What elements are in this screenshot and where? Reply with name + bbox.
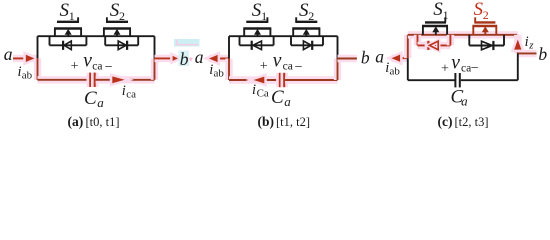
svg-text:C: C bbox=[271, 87, 284, 108]
transistor S2 (circuit c) bbox=[472, 17, 497, 35]
svg-text:b: b bbox=[361, 48, 370, 68]
svg-text:(a): (a) bbox=[68, 114, 84, 129]
svg-text:1: 1 bbox=[69, 9, 75, 23]
caption (b) [t1, t2] bbox=[258, 114, 311, 129]
svg-text:ca: ca bbox=[92, 60, 102, 72]
label + vca - (circuit a) bbox=[71, 50, 113, 75]
wire: bottom rail left of capacitor (circuit c) bbox=[408, 79, 455, 81]
wire: left vertical lower, red path (circuit b) bbox=[225, 59, 232, 81]
wire to node b (circuit c) bbox=[518, 50, 537, 57]
wire: right vertical with current i_z (circuit c) bbox=[514, 35, 521, 54]
caption (a) [t0, t1] bbox=[68, 114, 120, 129]
label Ca (circuit c) bbox=[451, 87, 469, 109]
current arrow i_ab into node a (circuit a) bbox=[13, 55, 38, 62]
caption (c) [t2, t3] bbox=[438, 114, 489, 129]
transistor S2 (circuit b) bbox=[292, 17, 320, 36]
svg-text:1: 1 bbox=[443, 8, 449, 22]
wire: bottom rail right of capacitor (circuit c) bbox=[461, 79, 518, 81]
svg-text:a: a bbox=[195, 47, 204, 67]
transistor S1 (circuit b) bbox=[243, 17, 271, 36]
body diode of S2 (circuit c) bbox=[469, 35, 504, 50]
current arrow i_Ca on rail (circuit b) bbox=[254, 77, 265, 84]
wire: bottom rail right of capacitor (circuit a) bbox=[96, 76, 155, 83]
svg-text:1: 1 bbox=[261, 9, 267, 23]
svg-text:C: C bbox=[84, 88, 97, 109]
svg-text:ca: ca bbox=[283, 60, 293, 72]
svg-text:(b): (b) bbox=[258, 114, 275, 129]
svg-text:a: a bbox=[97, 95, 104, 110]
label i_ab (circuit a) bbox=[18, 64, 33, 82]
svg-text:−: − bbox=[105, 60, 113, 75]
svg-text:[t2, t3]: [t2, t3] bbox=[455, 115, 489, 129]
svg-text:b: b bbox=[180, 49, 189, 69]
wire: left vertical lower (circuit c) bbox=[407, 58, 409, 80]
label S2 (circuit a) bbox=[110, 0, 125, 23]
capacitor Ca (circuit b) bbox=[280, 73, 284, 87]
svg-text:(c): (c) bbox=[438, 114, 453, 129]
svg-text:i: i bbox=[122, 83, 126, 99]
label i_z (circuit c) bbox=[525, 34, 535, 52]
wire: top branch, red conducting path (circuit c) bbox=[408, 31, 518, 38]
svg-text:−: − bbox=[295, 60, 303, 75]
ghost annotation between circuits bbox=[174, 39, 200, 61]
wire: right vertical lower (circuit c) bbox=[517, 53, 519, 80]
wire: bottom rail left of capacitor (circuit b) bbox=[229, 76, 279, 83]
label S1 (circuit b) bbox=[252, 0, 267, 23]
body diode of S1 (circuit c) bbox=[418, 35, 451, 50]
wire: bottom rail right of capacitor (circuit b) bbox=[285, 76, 337, 83]
svg-text:+: + bbox=[441, 61, 449, 76]
svg-text:b: b bbox=[538, 44, 547, 64]
svg-text:Ca: Ca bbox=[257, 88, 269, 100]
svg-text:[t0, t1]: [t0, t1] bbox=[86, 115, 120, 129]
wire: right vertical lower, red path (circuit a) bbox=[151, 58, 158, 79]
svg-text:ab: ab bbox=[390, 65, 401, 77]
wire: left vertical upper (circuit a) bbox=[37, 36, 39, 58]
wire: left vertical upper, red path (circuit c) bbox=[404, 35, 411, 58]
svg-text:a: a bbox=[375, 47, 384, 67]
label S1 (circuit c) bbox=[433, 0, 448, 22]
current arrow i_ab out of node a (circuit c) bbox=[392, 55, 408, 62]
body diode of S2 (circuit b) bbox=[291, 36, 323, 50]
label + vca - (circuit c) bbox=[441, 52, 479, 76]
svg-text:v: v bbox=[83, 50, 92, 71]
wire to node b (circuit b) bbox=[338, 55, 357, 62]
capacitor Ca (circuit c) bbox=[455, 73, 459, 87]
label Ca (circuit b) bbox=[271, 87, 291, 109]
label S2 (circuit b) bbox=[299, 0, 314, 23]
svg-text:2: 2 bbox=[483, 8, 489, 22]
svg-text:+: + bbox=[71, 59, 79, 74]
wire: left vertical upper (circuit b) bbox=[228, 36, 230, 58]
label i_ab (circuit b) bbox=[209, 62, 224, 80]
label S2 (circuit c) bbox=[474, 0, 489, 22]
body diode of S1 (circuit a) bbox=[50, 36, 87, 50]
transistor S1 (circuit a) bbox=[54, 17, 82, 36]
wire: left vertical lower, red path (circuit a) bbox=[34, 58, 41, 79]
label Ca (circuit a) bbox=[84, 88, 104, 110]
svg-text:i: i bbox=[252, 82, 256, 98]
svg-text:a: a bbox=[284, 94, 291, 109]
svg-text:v: v bbox=[273, 50, 282, 71]
wire: top branch (circuit a) bbox=[38, 35, 155, 37]
transistor S2 (circuit a) bbox=[103, 17, 131, 36]
capacitor Ca (circuit a) bbox=[90, 73, 95, 87]
svg-text:a: a bbox=[4, 44, 13, 64]
label i_Ca (circuit b) bbox=[252, 82, 269, 100]
wire: right vertical upper (circuit a) bbox=[154, 36, 156, 58]
current arrow i_ab out of node a (circuit b) bbox=[209, 55, 229, 62]
body diode of S2 (circuit a) bbox=[105, 36, 138, 50]
svg-text:i: i bbox=[525, 34, 529, 50]
svg-text:ca: ca bbox=[126, 88, 136, 100]
svg-text:ab: ab bbox=[22, 70, 33, 82]
label i_ab (circuit c) bbox=[385, 60, 400, 78]
svg-text:a: a bbox=[461, 94, 468, 109]
svg-text:−: − bbox=[471, 61, 479, 76]
svg-text:ab: ab bbox=[214, 68, 225, 80]
wire: right vertical upper (circuit b) bbox=[337, 36, 339, 58]
label i_ca (circuit a) bbox=[122, 83, 136, 100]
wire: top branch (circuit b) bbox=[229, 35, 338, 37]
wire: right vertical lower, red path (circuit b) bbox=[334, 59, 341, 81]
transistor S1 (circuit c) bbox=[422, 17, 448, 35]
body diode of S1 (circuit b) bbox=[240, 36, 274, 50]
wire: bottom rail left of capacitor (circuit a) bbox=[38, 76, 90, 83]
node b label (circuit a) bbox=[179, 49, 190, 69]
svg-text:v: v bbox=[451, 52, 460, 73]
svg-text:2: 2 bbox=[119, 9, 125, 23]
current arrow i_ca on rail (circuit a) bbox=[112, 76, 124, 83]
svg-text:ca: ca bbox=[461, 62, 471, 74]
svg-text:2: 2 bbox=[308, 9, 314, 23]
label + vca - (circuit b) bbox=[260, 50, 303, 75]
label S1 (circuit a) bbox=[60, 0, 75, 23]
current arrow out to node b (circuit a) bbox=[155, 56, 179, 61]
svg-text:+: + bbox=[260, 59, 268, 74]
svg-text:[t1, t2]: [t1, t2] bbox=[276, 115, 310, 129]
